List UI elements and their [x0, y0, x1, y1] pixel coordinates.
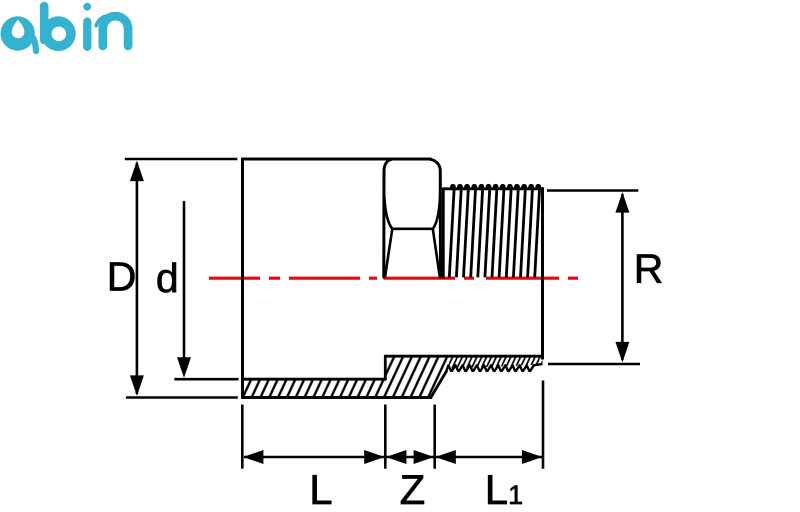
- d extension line: [174, 378, 238, 381]
- step slant edge: [431, 372, 446, 398]
- bore line: [243, 378, 386, 381]
- dimension Z arrow: [386, 450, 434, 464]
- dimension D arrow: [130, 161, 144, 396]
- thread crest bumps: [450, 184, 541, 190]
- body bottom edge: [243, 396, 431, 399]
- D top extension line: [125, 158, 238, 161]
- thread band hatch: [448, 356, 543, 368]
- Z/L1 extension line: [433, 405, 436, 469]
- hex facet line: [392, 228, 433, 231]
- thread start edge: [442, 189, 445, 278]
- dimension R arrow: [615, 192, 629, 362]
- hex right silhouette: [430, 159, 440, 277]
- R top extension line: [547, 189, 638, 192]
- logo letter a: [1, 16, 37, 51]
- L/Z extension line: [384, 405, 387, 469]
- dimension L arrow: [243, 450, 385, 464]
- section hatch (socket wall, step, thread band): [243, 356, 449, 397]
- logo letter i: [83, 3, 91, 47]
- svg-text:Z: Z: [400, 466, 426, 512]
- logo letter b: [41, 6, 76, 51]
- thread flank lines: [449, 190, 539, 278]
- thread crest line (top): [443, 187, 542, 190]
- hex left facet curve: [384, 188, 392, 229]
- R bottom extension line: [548, 363, 640, 366]
- thread teeth profile (bottom): [446, 364, 542, 372]
- dimension L1 arrow: [435, 450, 542, 464]
- dimension d arrow: [177, 201, 191, 378]
- svg-text:R: R: [634, 245, 664, 291]
- L1 right extension line: [542, 381, 545, 469]
- logo letter n: [96, 16, 128, 46]
- body top edge: [243, 158, 431, 161]
- step left edge: [384, 356, 387, 379]
- svg-text:L: L: [309, 466, 332, 512]
- hex right lower slant: [433, 229, 440, 277]
- L extension line: [241, 405, 244, 469]
- right end face: [541, 189, 544, 359]
- shoulder / thread root line: [385, 355, 542, 358]
- svg-text:D: D: [107, 253, 137, 299]
- hex left lower slant: [385, 229, 392, 277]
- hex right facet curve: [433, 188, 441, 229]
- svg-text:d: d: [156, 255, 179, 301]
- red centerline: [209, 277, 578, 280]
- D bottom extension line: [126, 396, 238, 399]
- hex left silhouette: [384, 159, 392, 277]
- body left edge: [241, 159, 244, 398]
